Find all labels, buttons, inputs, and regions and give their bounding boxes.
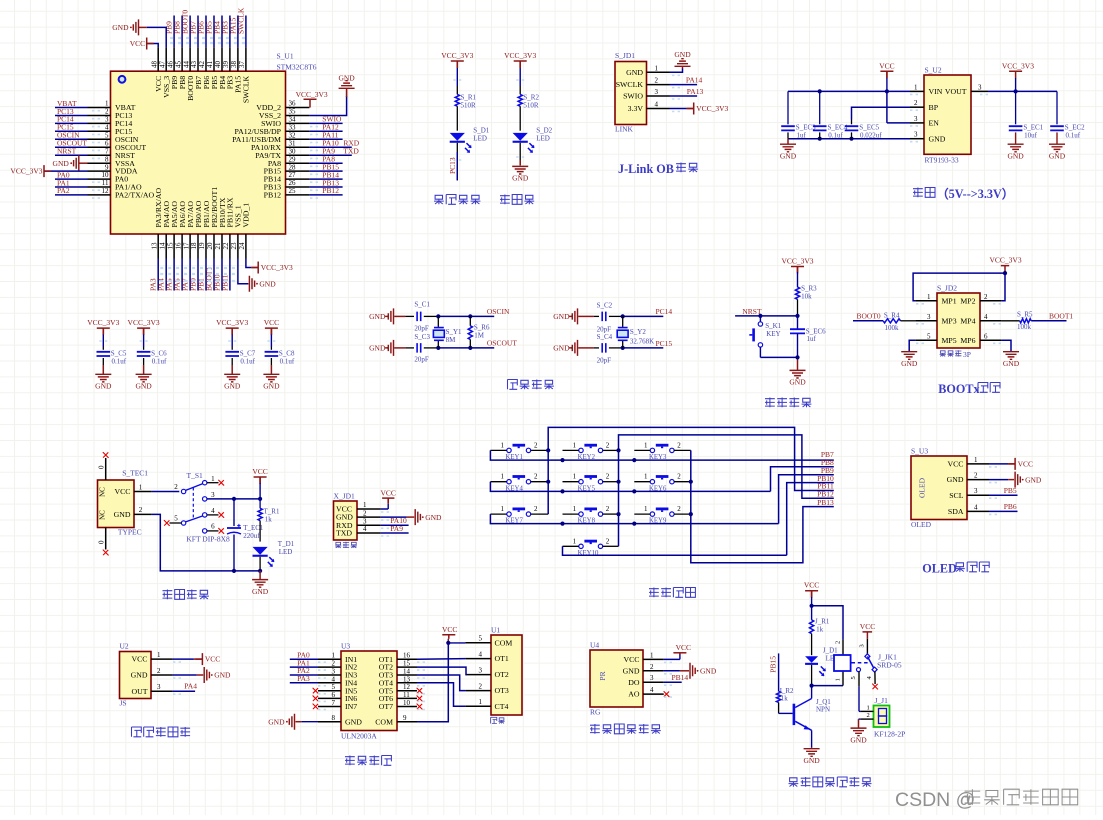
key KEY3 (656, 444, 669, 447)
resistor S_R1 510R (456, 86, 458, 94)
junction relay bottom (810, 684, 814, 688)
svg-text:4: 4 (105, 124, 109, 132)
ground (J_J1) (851, 728, 867, 736)
U1 pin 31 PA10/RX (286, 146, 310, 148)
U1 pin 19 PB1/AO (205, 234, 207, 259)
U1 pin 40 PB4 (221, 47, 223, 71)
svg-text:COM: COM (375, 717, 393, 726)
svg-text:1k: 1k (265, 515, 273, 523)
power VCC_3V3 (reset) (791, 267, 804, 274)
key KEY9 (656, 508, 669, 511)
X_JD1 pin 2 GND (357, 516, 381, 518)
svg-text:S_Y2: S_Y2 (630, 328, 646, 336)
U3 pin 8 GND (318, 721, 341, 723)
wire U3 PA0 (290, 658, 318, 660)
svg-text:9: 9 (403, 714, 407, 722)
wire reset mid (797, 316, 799, 329)
wire net PB8 (181, 16, 183, 48)
svg-text:GND: GND (789, 378, 806, 387)
svg-text:BOOTx: BOOTx (938, 382, 980, 396)
svg-text:S_EC5: S_EC5 (859, 123, 879, 131)
svg-text:4: 4 (650, 686, 654, 694)
svg-text:TXD: TXD (343, 147, 359, 156)
capacitor S_EC5 0.022uf (845, 126, 859, 130)
U1 pin 46 PB9 (173, 47, 175, 71)
wire BOOT1 (1031, 320, 1066, 322)
led T_D1 (253, 547, 268, 555)
U1 pin 29 PA8 (286, 162, 310, 164)
svg-text:3: 3 (211, 491, 215, 499)
wire net PA5 (173, 259, 175, 291)
wire net PA2 (55, 194, 88, 196)
svg-text:S_Y1: S_Y1 (446, 328, 462, 336)
U1 socket pin 1 CT4 (465, 705, 491, 707)
ground (XJD1) (415, 509, 420, 525)
svg-text:PA3: PA3 (297, 674, 310, 683)
wire OT3 link (417, 675, 465, 691)
svg-text:MP3: MP3 (942, 317, 957, 326)
wire PB15 (778, 653, 780, 691)
svg-text:LED: LED (536, 135, 550, 143)
svg-text:GND: GND (780, 151, 797, 160)
svg-text:2: 2 (974, 472, 978, 480)
title 步进电机 (345, 756, 355, 766)
svg-text:0.1uf: 0.1uf (828, 131, 843, 139)
wire S_EC1 leads (1015, 91, 1017, 124)
capacitor S_C2 20pF (602, 312, 606, 322)
svg-text:BOOT0: BOOT0 (857, 312, 881, 321)
svg-text:1: 1 (501, 473, 505, 481)
resistor S_R2 510R (519, 86, 521, 94)
power VCC (XJD1) (382, 497, 394, 499)
wire S_C7 bottom (231, 358, 233, 365)
svg-text:1: 1 (644, 441, 648, 449)
svg-text:SWIO: SWIO (623, 92, 643, 101)
X_JD1 pin 3 RXD (357, 524, 381, 526)
wire net PB15 (309, 170, 342, 172)
svg-text:T_EC1: T_EC1 (243, 524, 264, 532)
svg-text:1k: 1k (781, 694, 789, 702)
svg-text:VCC_3V3: VCC_3V3 (216, 318, 248, 327)
wire collector (811, 686, 813, 699)
title 复位电路 (765, 398, 775, 408)
ground (S_C6) (136, 374, 152, 382)
wire gnd to S_C2 (578, 315, 594, 317)
power VCC_3V3 (J-Link) (687, 103, 694, 115)
svg-text:5: 5 (927, 332, 931, 340)
svg-text:30: 30 (289, 147, 297, 155)
svg-text:S_EC2: S_EC2 (1065, 123, 1085, 131)
wire OLED VCC (989, 463, 1008, 465)
svg-text:GND: GND (268, 717, 285, 726)
switch T_S1 contacts (181, 489, 185, 493)
U4 pin 1 VCC (643, 658, 663, 660)
svg-text:1: 1 (974, 456, 978, 464)
wire S_C1 to OSCIN (424, 315, 439, 317)
wire BP to S_EC5 (852, 107, 911, 119)
svg-text:PC14: PC14 (656, 307, 673, 316)
svg-text:GND: GND (929, 135, 946, 144)
svg-text:S_U3: S_U3 (911, 447, 928, 456)
header S_JD2 body (937, 293, 980, 348)
U1 pin 13 PA3/RX/AO (157, 234, 159, 259)
svg-text:9: 9 (105, 163, 109, 171)
S_U2 pin 3 EN (910, 122, 924, 124)
svg-text:1: 1 (927, 293, 931, 301)
svg-text:S_D1: S_D1 (473, 127, 489, 135)
ground (MP5) (901, 352, 917, 360)
svg-text:T_D1: T_D1 (278, 540, 295, 548)
mcu S_U1 body STM32C8T6 (111, 71, 286, 234)
capacitor S_C5 0.1uf (97, 352, 111, 356)
svg-text:2: 2 (479, 682, 483, 690)
svg-text:BOOT1: BOOT1 (1049, 312, 1073, 321)
svg-text:PA4: PA4 (184, 682, 197, 691)
resistor S_R6 1M (469, 316, 471, 325)
svg-text:1k: 1k (816, 625, 824, 633)
svg-text:S_EC1: S_EC1 (1023, 123, 1043, 131)
wire VSS_2 to GND (309, 96, 346, 116)
wire net PB9 (173, 16, 175, 48)
power VCC_3V3 (led1) (451, 61, 464, 68)
U3 pin 6 IN6 (318, 697, 341, 699)
U4 pin 3 DO (643, 681, 663, 683)
svg-text:TYPEC: TYPEC (118, 528, 142, 537)
capacitor S_EC2 0.1uf (1050, 126, 1064, 130)
svg-text:VCC: VCC (623, 655, 639, 664)
svg-text:33: 33 (289, 124, 297, 132)
svg-text:7: 7 (105, 147, 109, 155)
svg-text:10: 10 (102, 171, 110, 179)
svg-text:1: 1 (363, 501, 367, 509)
wire OT4 link (417, 683, 465, 707)
wire net SWCLK (245, 16, 247, 48)
svg-text:1: 1 (867, 704, 870, 711)
svg-text:0.022uf: 0.022uf (860, 131, 882, 139)
svg-text:SDA: SDA (948, 507, 964, 516)
wire switch pin3 out (207, 498, 260, 500)
svg-text:3: 3 (655, 88, 659, 96)
junction (232, 497, 236, 501)
svg-text:6: 6 (105, 139, 109, 147)
wire EN to VIN rail (886, 91, 888, 123)
svg-text:MP5: MP5 (942, 336, 957, 345)
svg-text:J-Link OB: J-Link OB (618, 162, 674, 176)
svg-text:VCC_3V3: VCC_3V3 (296, 90, 328, 99)
wire net PA9 (309, 154, 351, 156)
ground (S_EC3) (780, 144, 796, 152)
svg-text:U3: U3 (341, 641, 350, 650)
led S_D2 (513, 133, 528, 141)
U1 pin 28 PB15 (286, 170, 310, 172)
svg-text:4: 4 (974, 503, 978, 511)
svg-text:S_R5: S_R5 (1017, 310, 1033, 318)
wire S_EC5 leads (851, 120, 853, 125)
wire U2 OUT PA4 (173, 690, 196, 692)
svg-text:OSCIN: OSCIN (487, 307, 510, 316)
svg-text:16: 16 (174, 242, 182, 250)
wire JD1 pin2 PA14 (670, 84, 698, 86)
power VCC_3V3 (led2) (514, 61, 527, 68)
svg-text:1: 1 (139, 483, 143, 491)
wire net PB0 (197, 259, 199, 291)
svg-text:IN7: IN7 (345, 702, 357, 711)
svg-text:0: 0 (98, 465, 106, 469)
svg-text:T_S1: T_S1 (187, 471, 204, 480)
wire VCC to pin48 (147, 44, 159, 48)
svg-text:2: 2 (835, 641, 842, 644)
ground (OLED) (1015, 472, 1020, 488)
junction (436, 346, 440, 350)
capacitor S_C1 20pF (417, 312, 421, 322)
ground (S_C2) (572, 308, 577, 324)
relay J_JK1 coil (842, 640, 844, 655)
svg-text:GND: GND (425, 513, 442, 522)
U1 pin 25 PB12 (286, 194, 310, 196)
svg-text:PB15: PB15 (769, 656, 778, 673)
svg-text:6: 6 (984, 332, 988, 340)
X_JD1 pin 1 VCC (357, 508, 381, 510)
svg-text:13: 13 (403, 675, 411, 683)
S_TEC1 pin 2 GND (134, 513, 151, 515)
svg-text:PA13: PA13 (687, 87, 704, 96)
wire VDDA to VCC_3V3 (44, 170, 88, 172)
S_JD1 pin 2 SWCLK (647, 84, 670, 86)
U1 socket pin 4 OT1 (465, 658, 491, 660)
svg-text:S_R2: S_R2 (523, 93, 539, 101)
svg-text:GND: GND (1049, 151, 1066, 160)
power VCC (U4) (673, 652, 686, 654)
U1 pin 24 VDD_1 (245, 234, 247, 259)
wire net PC13 (55, 115, 88, 117)
U1 pin 7 NRST (88, 154, 111, 156)
svg-text:17: 17 (182, 242, 190, 250)
capacitor T_EC1 220uf (227, 527, 241, 529)
svg-text:GND: GND (369, 344, 386, 353)
wire row1 bus PB7 (490, 450, 833, 460)
svg-text:1: 1 (835, 678, 842, 681)
svg-text:1uf: 1uf (797, 131, 807, 139)
svg-text:SWCLK: SWCLK (242, 75, 251, 103)
S_U2 pin 3 VOUT (971, 90, 988, 92)
U1 pin 32 PA11/USB/DM (286, 138, 310, 140)
svg-text:11: 11 (403, 691, 410, 699)
svg-text:510R: 510R (461, 101, 477, 109)
regulator S_U2 body (924, 75, 971, 154)
junction relay top (810, 604, 814, 608)
svg-text:VCC_3V3: VCC_3V3 (441, 51, 473, 60)
U3 pin 5 IN5 (318, 690, 341, 692)
svg-text:2: 2 (677, 473, 681, 481)
socket U1 body (491, 635, 522, 715)
wire U3 GND (301, 721, 318, 723)
svg-text:NPN: NPN (816, 706, 830, 714)
S_U2 pin 1 VIN (910, 90, 924, 92)
wire TEC1 GND route (151, 514, 260, 571)
svg-text:PA9: PA9 (390, 524, 403, 533)
svg-text:GND: GND (626, 68, 643, 77)
wire row3 bus (490, 514, 778, 524)
x mark U3 IN6 (313, 696, 318, 701)
svg-text:4: 4 (363, 525, 367, 533)
svg-text:GND: GND (338, 74, 355, 83)
svg-text:2: 2 (105, 108, 109, 116)
wire net BOOT1 (213, 259, 215, 291)
led J_D1 symbol (805, 656, 818, 663)
wire XJD1 TXD PA9 (381, 532, 409, 534)
svg-text:7: 7 (332, 699, 336, 707)
svg-text:PA2/TX/AO: PA2/TX/AO (115, 191, 155, 200)
svg-text:VIN: VIN (929, 87, 943, 96)
U1 socket pin 2 OT3 (465, 690, 491, 692)
wire U3 COM riser (417, 643, 448, 722)
S_JD2 pin 1 MP1 (915, 300, 937, 302)
capacitor S_EC3 1uf (781, 126, 795, 130)
wire VCC down (259, 477, 261, 483)
U3 pin 13 OT4 (397, 682, 417, 684)
U3 pin 16 OT1 (397, 658, 417, 660)
wire VSS_3 to GND (147, 27, 167, 47)
svg-text:3: 3 (859, 644, 866, 647)
S_TEC1 pin 1 VCC (134, 491, 151, 493)
resistor J_R2 1k (777, 691, 781, 702)
power VCC (U2) (195, 653, 202, 665)
svg-text:MP2: MP2 (960, 297, 975, 306)
svg-text:40: 40 (214, 61, 222, 69)
S_U2 pin 2 BP (910, 106, 924, 108)
power VCC (T_R1) (254, 477, 267, 484)
wire S_C5 top (102, 328, 104, 334)
relay switch (866, 639, 868, 655)
svg-text:10k: 10k (801, 292, 812, 300)
svg-text:VDD_1: VDD_1 (242, 203, 251, 228)
svg-text:LINK: LINK (615, 125, 633, 134)
wire VDD_1 to VCC_3V3 (246, 259, 251, 268)
wire JD1 pin3 PA13 (670, 95, 698, 97)
svg-text:1M: 1M (474, 331, 485, 339)
svg-text:38: 38 (230, 61, 238, 69)
relay dashed link (852, 662, 869, 664)
svg-text:3.3V: 3.3V (628, 104, 644, 113)
svg-text:J_D1: J_D1 (823, 647, 838, 655)
wire S_C8 top (270, 328, 272, 334)
U2 pin 1 VCC (151, 658, 173, 660)
svg-text:NC: NC (99, 487, 107, 497)
junction row1 (560, 458, 564, 462)
S_JD1 pin 3 SWIO (647, 95, 670, 97)
svg-text:LED: LED (279, 548, 293, 556)
svg-text:4: 4 (332, 675, 336, 683)
svg-text:14: 14 (403, 668, 411, 676)
svg-text:NC: NC (99, 510, 107, 520)
wire led2 bottom (519, 143, 521, 166)
svg-text:PB5: PB5 (1004, 486, 1017, 495)
svg-text:20pF: 20pF (597, 357, 612, 365)
mcu S_U1 marker dot (119, 76, 126, 83)
svg-text:VCC_3V3: VCC_3V3 (696, 104, 728, 113)
wire net PA8 (309, 162, 342, 164)
wire PB9 riser (779, 475, 834, 524)
wire S_C4 to PC15 (609, 347, 623, 349)
svg-text:CSDN @: CSDN @ (895, 789, 975, 811)
power VCC_3V3 (S_C6) (137, 328, 150, 335)
wire net PA4 (165, 259, 167, 291)
svg-text:10uf: 10uf (1024, 131, 1038, 139)
svg-text:SCL: SCL (949, 491, 964, 500)
svg-text:GND: GND (674, 50, 691, 59)
U1 pin 21 PB10/TX (221, 234, 223, 259)
S_TEC1 pin 0 top (105, 458, 107, 480)
U1 pin 45 PB8 (181, 47, 183, 71)
svg-text:GND: GND (553, 344, 570, 353)
U1 pin 30 PA9/TX (286, 154, 310, 156)
svg-text:2: 2 (534, 473, 538, 481)
capacitor S_C3 20pF (417, 343, 421, 353)
title 光敏检测模块 (590, 724, 600, 734)
wire net PB3 (229, 16, 231, 48)
svg-text:VCC: VCC (264, 318, 279, 327)
U1 pin 42 PB6 (205, 47, 207, 71)
svg-text:47: 47 (158, 61, 166, 69)
S_JD1 pin 4 3.3V (647, 108, 670, 110)
wire net PB10 (221, 259, 223, 291)
S_JD2 pin 4 MP4 (980, 320, 1001, 322)
svg-text:1: 1 (914, 83, 918, 91)
wire T_EC bottom (233, 535, 235, 571)
U3 pin 3 IN3 (318, 674, 341, 676)
resistor S_R5 100k (1001, 320, 1019, 322)
svg-text:J_R1: J_R1 (815, 618, 830, 626)
wire U4 DO PB14 (663, 681, 681, 683)
relay pin 5 (857, 668, 861, 672)
wire row2 bus (490, 482, 770, 492)
U1 socket pin 5 COM (465, 642, 491, 644)
U1 pin 8 VSSA (88, 162, 111, 164)
U3 pin 10 OT7 (397, 706, 417, 708)
junction gnd rail (818, 137, 822, 141)
capacitor S_C6 0.1uf (137, 352, 151, 356)
wire U3 PA3 (290, 682, 318, 684)
svg-text:VCC_3V3: VCC_3V3 (990, 256, 1022, 265)
resistor T_R1 1k (259, 499, 261, 508)
title 电源电路 (163, 590, 173, 600)
wire VCC to U1 COM (447, 639, 449, 643)
svg-text:U2: U2 (120, 642, 129, 651)
svg-text:S_C4: S_C4 (597, 333, 613, 341)
svg-text:12: 12 (102, 187, 110, 195)
ground at VSSA (74, 155, 79, 171)
wire net PA3 (157, 259, 159, 291)
junction col3 (689, 480, 693, 484)
svg-text:1uf: 1uf (807, 335, 817, 343)
ground (led2) (512, 166, 528, 174)
svg-text:VCC_3V3: VCC_3V3 (1002, 61, 1034, 70)
svg-text:21: 21 (214, 242, 222, 250)
power VCC (OLED) (1008, 458, 1015, 470)
svg-text:GND: GND (947, 475, 964, 484)
svg-text:PB11: PB11 (220, 274, 229, 291)
svg-text:10: 10 (403, 699, 411, 707)
svg-text:PB14: PB14 (672, 673, 689, 682)
ground (S_EC1) (1008, 144, 1024, 152)
wire net PA6 (181, 259, 183, 291)
svg-text:VCC: VCC (860, 622, 875, 631)
ground (S_EC2) (1049, 144, 1065, 152)
svg-text:220uf: 220uf (243, 532, 260, 540)
wire S_C8 bottom (270, 358, 272, 365)
wire gnd to S_C4 (578, 347, 594, 349)
wire NRST (735, 315, 797, 317)
